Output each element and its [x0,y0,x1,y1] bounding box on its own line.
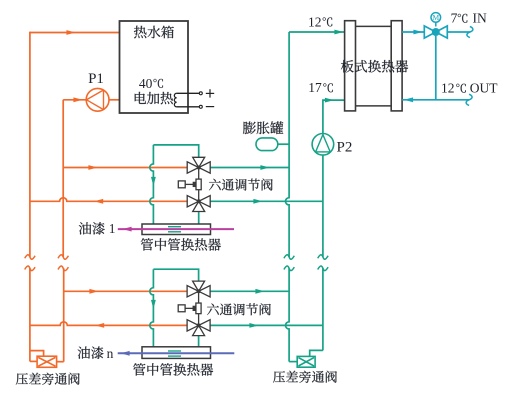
label six-way valve upper [209,179,273,191]
pipe break outer orange riser [25,255,35,260]
svg-text:40: 40 [139,76,153,91]
paint n line (blue) [118,352,235,354]
label paint 1 [79,222,105,234]
label tube HX lower [133,363,213,376]
tube-in-tube HX upper body [142,224,211,235]
svg-text:M: M [432,13,439,22]
label 7C degree [458,14,468,23]
wire upper loop left downcomer [150,145,154,224]
wire riser into teal bypass valve [289,361,297,363]
label expansion tank [243,121,283,134]
wire motor valve down leg [435,36,437,100]
pump P1 [86,88,109,111]
wire hot-water return riser top to tank [30,32,120,34]
wire lower valve top port return [210,290,289,292]
label 12C top degree [323,17,333,26]
wire lower valve outlet stem to HX [198,336,200,347]
tube-in-tube HX upper inner tubes [168,226,181,228]
svg-text:7: 7 [451,11,458,26]
wire lower loop left downcomer [150,269,154,347]
label hot water tank [134,26,174,39]
valve differential-pressure bypass (orange) [37,356,57,367]
pump P2 [312,134,334,156]
wire upper valve top port return [210,167,289,169]
heater wire + [177,92,200,94]
svg-text:12: 12 [308,14,322,29]
wire bypass valve right stub [57,361,64,363]
wire return riser step to bypass valve top [310,350,323,356]
wire chilled return riser lower [322,268,324,350]
tube-in-tube HX lower inner tubes [168,350,181,352]
wire hot supply branch to upper six-way valve [63,167,187,169]
pipe break chilled supply riser [284,255,294,260]
svg-text:12: 12 [441,81,455,96]
wire chilled supply riser lower [285,268,289,361]
plate HX bottom tie [356,105,392,107]
plate heat exchanger left plate [345,21,356,111]
tube-in-tube HX lower body [142,347,211,359]
wire hot return branch from lower six-way valve [30,322,187,326]
svg-text:P2: P2 [337,140,353,156]
valve motorized 3-way [424,26,436,38]
wire plate HX to motor valve [402,31,424,33]
wire P1 suction from inner riser [63,99,86,101]
label 17C degree [323,83,333,92]
wire expansion tank stub [278,143,289,145]
svg-text:n: n [107,346,114,361]
plate heat exchanger right plate [391,21,402,111]
wire upper valve outlet stem to HX [198,212,200,224]
motor actuator M [431,13,441,23]
valve six-way upper assembly [178,157,210,211]
label plate heat exchanger [341,60,408,73]
wire outer orange riser lower segment [29,268,31,361]
plate HX top tie [356,25,392,27]
wire orange step connection to bypass valve top [30,351,44,357]
wire upper valve bottom port supply [210,200,323,202]
wire lower mixing loop top [153,269,198,281]
expansion tank [256,138,278,151]
pipe break inner orange riser [58,255,68,260]
svg-text:P1: P1 [88,71,104,87]
heater wire - [177,106,200,108]
wire lower valve bottom port supply [210,324,323,326]
wire inner orange riser lower segment [63,268,65,361]
wire upper mixing loop top [153,145,198,157]
wire chilled supply riser upper [286,32,290,257]
label paint n [78,346,104,358]
hot water tank box [120,21,189,113]
wire orange riser into bypass valve left [30,360,37,362]
wire hot supply branch to lower six-way valve [64,290,188,292]
wire 12C OUT line [402,99,469,101]
svg-text:OUT: OUT [470,81,498,96]
label bypass valve left [16,373,80,385]
wire inner orange riser upper segment [62,100,64,257]
pipe break chilled return riser [318,255,328,260]
pipe end 12C OUT [466,94,472,105]
wire 7C IN outlet [447,31,470,33]
label electric heating [135,92,173,104]
valve six-way lower assembly [178,281,210,336]
wire chilled return riser upper [322,155,324,257]
terminal - sign [206,106,214,108]
label 40C degree [153,79,163,88]
svg-text:1: 1 [109,221,116,236]
terminal + sign [206,92,214,94]
wire 17C return to plate HX [323,100,346,133]
svg-text:IN: IN [473,11,487,26]
valve differential-pressure bypass (teal) [297,356,315,367]
pipe end 7C IN [467,26,473,37]
wire outer orange riser upper segment [29,32,31,257]
label bypass valve right [273,371,337,383]
wire hot return branch from upper six-way valve [30,198,187,202]
electric heater coil [174,93,176,107]
label six-way valve lower [207,303,271,315]
label tube HX upper [141,238,221,251]
paint 1 line (magenta) [118,228,234,230]
svg-text:17: 17 [308,80,322,95]
wire P1 discharge to tank [109,99,120,101]
label 12C OUT degree [456,84,466,93]
wire 12C supply header [289,31,345,33]
